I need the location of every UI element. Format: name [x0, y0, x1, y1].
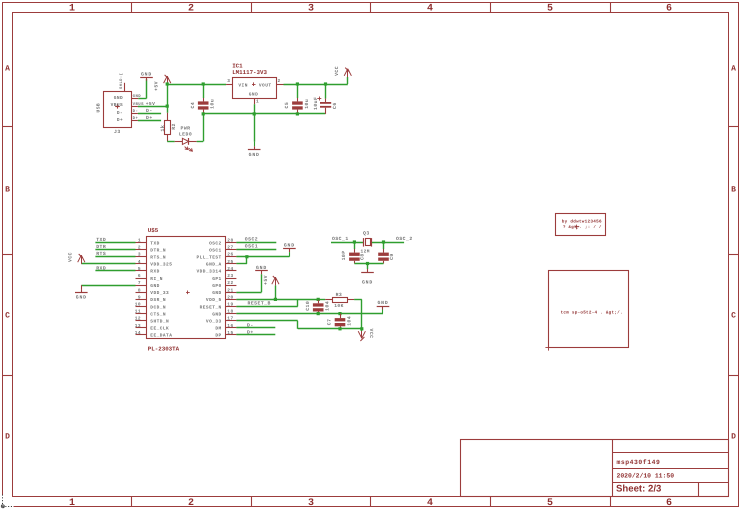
- svg-text:SHLD-{: SHLD-{: [119, 73, 124, 89]
- wire crystal to OSC_2: [372, 240, 404, 243]
- svg-text:GND: GND: [362, 280, 373, 286]
- wire VBUS to +5V node: [138, 105, 169, 108]
- svg-text:PWR: PWR: [181, 125, 191, 131]
- svg-text:3: 3: [308, 498, 314, 509]
- svg-text:B: B: [5, 186, 10, 195]
- svg-text:3: 3: [138, 252, 141, 258]
- pin 26 PLL_TEST of U$5: [196, 252, 236, 261]
- ground symbol right C: [377, 300, 390, 314]
- svg-text:25: 25: [227, 259, 233, 265]
- svg-text:5: 5: [138, 267, 141, 272]
- svg-text:DCD_N: DCD_N: [150, 304, 166, 310]
- net label DTR: [94, 244, 106, 250]
- svg-text:GND: GND: [114, 95, 123, 101]
- svg-text:tcm sp-o5t2-4 . &gt;/.: tcm sp-o5t2-4 . &gt;/.: [561, 309, 623, 315]
- svg-text:RTS_N: RTS_N: [150, 255, 166, 261]
- pin 22 GP0 of U$5: [212, 280, 236, 289]
- svg-text:OSC_1: OSC_1: [332, 236, 349, 242]
- svg-text:10P: 10P: [341, 250, 347, 260]
- ground symbol left of U$5: [75, 289, 88, 301]
- svg-text:1k: 1k: [160, 125, 166, 132]
- pin 28 OSC2 of U$5: [209, 238, 236, 247]
- wire OSC2 pin28: [236, 242, 276, 244]
- svg-text:RXD: RXD: [150, 270, 159, 275]
- net label D- right: [245, 322, 254, 328]
- ground symbol right B: [255, 265, 268, 275]
- svg-text:13: 13: [135, 323, 141, 329]
- svg-text:TXD: TXD: [150, 241, 159, 246]
- pin 9 DSR_N of U$5: [136, 294, 167, 303]
- gnd rail under regulator: [203, 113, 325, 115]
- wire pins 25 26 to ground: [236, 255, 289, 264]
- svg-text:10u: 10u: [210, 99, 216, 109]
- svg-text:6: 6: [138, 273, 141, 279]
- svg-text:104: 104: [325, 301, 331, 311]
- net label D+: [144, 115, 153, 121]
- wire LED to C4 branch: [197, 114, 204, 142]
- svg-text:6: 6: [666, 498, 672, 509]
- pin 16 DM of U$5: [215, 323, 236, 332]
- pin 14 EE_DATA of U$5: [135, 331, 173, 339]
- svg-text:GND: GND: [150, 283, 159, 289]
- wire VOUT rail to VCC: [284, 77, 348, 85]
- svg-text:27: 27: [227, 245, 233, 251]
- svg-text:18: 18: [227, 309, 233, 315]
- note box author: [556, 214, 606, 236]
- svg-text:GND: GND: [249, 152, 260, 158]
- wire RXD: [95, 270, 135, 272]
- pin D- of J3: [131, 109, 138, 114]
- svg-text:DSR_N: DSR_N: [150, 297, 166, 303]
- svg-text:1: 1: [256, 99, 259, 104]
- supply +5V arrow right: [263, 275, 279, 299]
- svg-text:C: C: [5, 312, 10, 321]
- pin 27 OSC1 of U$5: [209, 245, 236, 254]
- svg-text:VDD_33: VDD_33: [150, 290, 169, 296]
- svg-text:C9: C9: [389, 253, 395, 260]
- pin 3 VIN of IC1: [226, 78, 233, 85]
- pin 18 GND of U$5: [212, 309, 236, 318]
- svg-text:TXD: TXD: [96, 237, 106, 243]
- pin 20 VDD_5 of U$5: [206, 294, 236, 303]
- svg-text:8: 8: [138, 287, 141, 293]
- svg-text:LED0: LED0: [179, 131, 192, 137]
- op-amp U1 regulator IC1 LM1117-3V3: [232, 63, 276, 99]
- wire TXD: [95, 242, 135, 244]
- svg-text:20: 20: [227, 294, 233, 300]
- svg-text:RESET_N: RESET_N: [200, 304, 222, 310]
- frame row tick marks right: [729, 127, 739, 376]
- pin 1 GND of IC1: [255, 98, 260, 104]
- svg-text:22: 22: [227, 280, 233, 286]
- svg-text:C: C: [731, 312, 736, 321]
- title text msp430f149: [617, 459, 661, 466]
- frame row labels left: [5, 65, 10, 442]
- svg-text:D+: D+: [117, 118, 123, 123]
- svg-text:4: 4: [427, 4, 433, 15]
- IC U$5 PL-2303TA body: [147, 227, 226, 352]
- svg-text:EE_DATA: EE_DATA: [150, 334, 172, 339]
- svg-text:9: 9: [138, 294, 141, 300]
- pin 1 TXD of U$5: [136, 239, 160, 247]
- svg-text:RI_N: RI_N: [150, 277, 163, 282]
- svg-text:28: 28: [227, 238, 233, 244]
- pin GND of J3: [131, 94, 141, 99]
- wire pin18 ground rail: [236, 312, 383, 315]
- wire IC1 GND to rail: [253, 104, 256, 141]
- capacitor C7 104: [327, 314, 353, 331]
- connector J3 USB: [96, 73, 132, 135]
- wire VDD_5 pin20 node: [236, 298, 319, 301]
- wire R3 to VCC down: [360, 299, 363, 331]
- pin 10 DCD_N of U$5: [135, 301, 166, 310]
- net label RTS: [94, 251, 106, 257]
- pin VBUS of J3: [131, 102, 144, 107]
- svg-text:R2: R2: [171, 123, 177, 130]
- wire GND J3 to ground: [138, 79, 146, 99]
- net label TXD: [94, 237, 106, 243]
- ground symbol right A: [283, 243, 296, 257]
- wire DTR: [95, 249, 135, 251]
- svg-text:? &gt;. ;: / /: ? &gt;. ;: / /: [563, 225, 602, 230]
- svg-text:7: 7: [138, 281, 141, 286]
- svg-text:PLL_TEST: PLL_TEST: [196, 255, 221, 261]
- pin 8 VDD_33 of U$5: [136, 287, 170, 296]
- svg-text:LM1117-3V3: LM1117-3V3: [232, 69, 267, 76]
- svg-text:D+: D+: [146, 115, 153, 121]
- frame column labels bottom: [69, 498, 672, 509]
- svg-text:Q3: Q3: [363, 231, 370, 237]
- ground symbol below IC1: [248, 142, 261, 158]
- svg-text:C5: C5: [284, 102, 290, 109]
- svg-text:2: 2: [138, 245, 141, 251]
- pin 7 GND of U$5: [136, 281, 160, 289]
- svg-text:10uF: 10uF: [313, 97, 319, 110]
- capacitor C8 10P: [341, 242, 366, 264]
- svg-text:D-: D-: [146, 108, 153, 114]
- svg-text:GND: GND: [284, 243, 295, 249]
- pin 5 RXD of U$5: [136, 267, 160, 275]
- svg-text:6: 6: [666, 4, 672, 15]
- wire OSC_1 to crystal: [331, 240, 363, 243]
- svg-text:10K: 10K: [334, 303, 344, 309]
- svg-text:DTR: DTR: [96, 244, 106, 250]
- net label +5V at VBUS: [143, 101, 155, 107]
- svg-text:DP: DP: [215, 334, 221, 339]
- pin 23 GP1 of U$5: [212, 273, 236, 282]
- svg-text:4: 4: [138, 260, 141, 265]
- pin 11 CTS_N of U$5: [135, 310, 166, 318]
- svg-text:DM: DM: [215, 327, 221, 332]
- LED0 power LED: [175, 125, 197, 151]
- svg-text:VDD_3314: VDD_3314: [196, 269, 221, 275]
- svg-text:OSC1: OSC1: [209, 247, 222, 253]
- resistor R3 10K: [318, 292, 362, 309]
- pin 19 RESET_N of U$5: [200, 301, 237, 310]
- svg-text:D+: D+: [133, 116, 139, 121]
- pin 13 EE_CLK of U$5: [135, 323, 170, 332]
- svg-text:GND_A: GND_A: [206, 262, 222, 268]
- svg-text:+5V: +5V: [146, 101, 156, 107]
- svg-text:5: 5: [547, 498, 553, 509]
- svg-text:4: 4: [427, 498, 433, 509]
- svg-text:OSC2: OSC2: [209, 240, 222, 246]
- origin marker bottom-left: [1, 495, 13, 508]
- svg-text:23: 23: [227, 273, 233, 279]
- svg-text:3: 3: [308, 4, 314, 15]
- pin 17 VO_33 of U$5: [206, 317, 236, 325]
- capacitor C5 10u: [284, 82, 310, 115]
- svg-text:10: 10: [135, 301, 141, 307]
- wire D- pin16: [236, 327, 275, 329]
- svg-text:14: 14: [135, 331, 141, 336]
- capacitor C4 10u: [190, 82, 216, 115]
- svg-text:GND: GND: [141, 71, 152, 77]
- net label D+ right: [245, 330, 254, 336]
- pin 12 SHTD_N of U$5: [135, 316, 170, 325]
- svg-text:D+: D+: [247, 330, 254, 336]
- svg-text:D-: D-: [247, 322, 254, 328]
- pin 3 RTS_N of U$5: [136, 252, 167, 261]
- net label D-: [144, 108, 153, 114]
- note box description: [545, 271, 628, 351]
- svg-text:VCC: VCC: [368, 329, 374, 339]
- pin 4 VDD_325 of U$5: [136, 260, 173, 268]
- svg-text:1: 1: [69, 4, 75, 15]
- svg-text:D: D: [5, 433, 10, 442]
- frame row labels right: [731, 65, 736, 442]
- capacitor C6 10uF polarized: [313, 82, 338, 114]
- svg-text:A: A: [5, 65, 10, 74]
- svg-text:CTS_N: CTS_N: [150, 311, 166, 317]
- svg-text:VCC: VCC: [67, 252, 73, 262]
- pin 2 DTR_N of U$5: [136, 245, 167, 254]
- svg-text:C10: C10: [305, 301, 311, 311]
- svg-text:EE_CLK: EE_CLK: [150, 326, 169, 332]
- svg-text:RESET_B: RESET_B: [248, 300, 271, 306]
- svg-text:D-: D-: [117, 111, 123, 116]
- wire pin21 to ground: [236, 274, 261, 292]
- wire D+ pin15: [236, 334, 275, 336]
- pin 24 VDD_3314 of U$5: [196, 266, 236, 275]
- svg-text:GND: GND: [249, 91, 258, 97]
- pin 2 VOUT of IC1: [276, 78, 283, 85]
- wire bottom rail pin17: [236, 321, 361, 329]
- frame column labels top: [69, 4, 672, 15]
- wire crystal gnd rail: [354, 262, 383, 269]
- svg-text:SHTD_N: SHTD_N: [150, 319, 169, 325]
- svg-text:OSC2: OSC2: [245, 237, 258, 243]
- wire +5V rail to IC1 VIN: [167, 84, 226, 86]
- svg-text:5: 5: [547, 4, 553, 15]
- svg-text:VO_33: VO_33: [206, 319, 222, 325]
- svg-text:J3: J3: [114, 129, 121, 135]
- wire +5V vertical to resistor: [166, 82, 169, 112]
- wire RTS: [95, 256, 135, 258]
- svg-text:2: 2: [278, 78, 281, 84]
- pin 6 RI_N of U$5: [136, 273, 163, 282]
- supply +5V arrow: [154, 75, 171, 91]
- svg-text:GP1: GP1: [212, 276, 221, 282]
- net label OSC1: [242, 244, 258, 250]
- svg-text:10u: 10u: [304, 99, 310, 109]
- svg-text:U$5: U$5: [148, 227, 159, 234]
- frame column tick marks top: [132, 2, 611, 12]
- svg-text:C8: C8: [360, 253, 366, 260]
- capacitor C10 104: [305, 299, 331, 315]
- svg-text:1: 1: [138, 239, 141, 244]
- frame row tick marks left: [3, 127, 14, 376]
- svg-text:msp430f149: msp430f149: [617, 459, 661, 466]
- svg-text:RXD: RXD: [96, 266, 106, 272]
- resistor R2 1k: [160, 113, 177, 142]
- wire D+ stub: [138, 120, 161, 122]
- svg-text:GP0: GP0: [212, 283, 221, 289]
- svg-text:Sheet: 2/3: Sheet: 2/3: [616, 484, 661, 495]
- supply VCC arrow down: [358, 329, 374, 342]
- net label OSC_2: [394, 236, 413, 242]
- svg-text:24: 24: [227, 266, 233, 272]
- net label RXD: [94, 266, 106, 272]
- pin 15 DP of U$5: [215, 331, 236, 339]
- svg-text:VBUS: VBUS: [111, 102, 124, 108]
- svg-text:104: 104: [347, 316, 353, 326]
- svg-text:D-: D-: [133, 109, 139, 114]
- svg-text:12: 12: [135, 316, 141, 322]
- crystal Q3: [361, 231, 372, 255]
- svg-text:C7: C7: [327, 319, 333, 326]
- svg-text:GND: GND: [256, 265, 267, 271]
- svg-text:OSC_2: OSC_2: [396, 236, 413, 242]
- title block outline: [461, 440, 729, 497]
- svg-text:OSC1: OSC1: [245, 244, 258, 250]
- capacitor C9 10P: [378, 242, 395, 264]
- svg-text:C6: C6: [332, 102, 338, 109]
- svg-text:PL-2303TA: PL-2303TA: [148, 346, 180, 353]
- net label OSC2: [242, 237, 258, 243]
- svg-text:16: 16: [227, 323, 233, 329]
- svg-text:GND: GND: [212, 311, 221, 317]
- svg-text:GND: GND: [76, 295, 87, 301]
- svg-text:D: D: [731, 433, 736, 442]
- supply VCC arrow top: [334, 66, 352, 77]
- svg-text:VDD_325: VDD_325: [150, 262, 172, 268]
- svg-text:RTS: RTS: [96, 251, 106, 257]
- wire RESET pin19: [236, 299, 297, 306]
- sheet number text: [616, 484, 661, 495]
- ground symbol above J3: [140, 71, 153, 98]
- svg-text:VDD_5: VDD_5: [206, 298, 222, 303]
- wire VCC to pin 4: [81, 263, 135, 265]
- svg-text:3: 3: [227, 78, 230, 84]
- svg-text:1: 1: [69, 498, 75, 509]
- svg-text:GND: GND: [212, 290, 221, 296]
- svg-text:26: 26: [227, 252, 233, 258]
- svg-text:15: 15: [227, 331, 233, 336]
- svg-text:2020/2/10 11:50: 2020/2/10 11:50: [617, 473, 675, 480]
- svg-text:by ddwtw123456: by ddwtw123456: [562, 218, 602, 224]
- svg-text:19: 19: [227, 301, 233, 307]
- svg-text:11: 11: [135, 310, 141, 315]
- pin D+ of J3: [131, 116, 138, 121]
- pin 25 GND_A of U$5: [206, 259, 236, 268]
- svg-text:+5V: +5V: [154, 81, 160, 91]
- net label OSC_1: [330, 236, 349, 242]
- ground symbol below crystal: [361, 269, 374, 286]
- supply VCC arrow left: [67, 252, 85, 264]
- svg-text:DTR_N: DTR_N: [150, 248, 166, 253]
- wire pin7 to ground: [81, 285, 135, 289]
- wire OSC1 pin27: [236, 249, 276, 251]
- pin 21 GND of U$5: [212, 287, 236, 296]
- svg-text:17: 17: [227, 317, 233, 322]
- svg-text:A: A: [731, 65, 736, 74]
- svg-text:21: 21: [227, 287, 233, 293]
- frame column tick marks bottom: [132, 496, 611, 507]
- svg-text:R3: R3: [336, 292, 343, 298]
- svg-text:USB: USB: [96, 103, 102, 113]
- svg-text:VCC: VCC: [334, 66, 340, 76]
- title date text: [617, 473, 675, 480]
- svg-text:GND: GND: [377, 300, 388, 306]
- svg-text:C4: C4: [190, 102, 196, 109]
- net label RESET_B: [245, 300, 271, 306]
- svg-text:B: B: [731, 186, 736, 195]
- svg-text:VOUT: VOUT: [259, 82, 272, 88]
- wire D- stub: [138, 113, 161, 115]
- svg-text:2: 2: [188, 4, 194, 15]
- svg-text:VIN: VIN: [238, 83, 247, 88]
- svg-text:2: 2: [188, 498, 194, 509]
- svg-text:+5V: +5V: [263, 275, 269, 285]
- wire R2 to LED: [167, 141, 175, 143]
